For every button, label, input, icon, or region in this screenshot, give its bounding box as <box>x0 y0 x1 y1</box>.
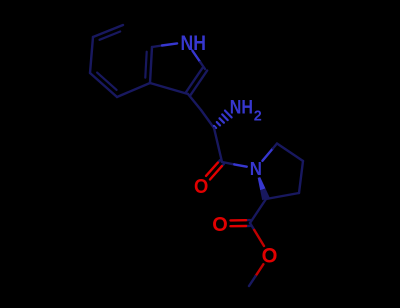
ester bond CE-O <box>250 223 254 230</box>
indole benzene bond C6-C5 <box>90 37 93 73</box>
pyrrolidine bond N-C5' <box>262 148 273 160</box>
side chain bond C3-CH2 <box>188 94 201 110</box>
indole bond C7a-N1 <box>152 46 162 48</box>
indole benzene double bond C6=C7 inner line <box>100 32 121 40</box>
indole benzene double bond C4=C5 inner line <box>97 73 117 90</box>
indole double bond C2=C3 <box>190 71 207 96</box>
svg-text:NH: NH <box>230 97 253 118</box>
pyrrolidine bond C3'-C2' <box>266 193 299 199</box>
indole benzene bond C4-C3a <box>117 83 150 97</box>
hashed wedge bond CA-NH2 <box>214 126 216 128</box>
svg-text:O: O <box>212 213 228 236</box>
indole benzene bond C7-C6 <box>93 25 123 37</box>
ester bond O-CH3 <box>256 264 264 276</box>
side chain bond CH2-CA <box>201 110 214 128</box>
indole fusion double bond C3a=C7a inner line <box>145 52 146 78</box>
indole bond N1-C2 <box>192 51 200 62</box>
bond CA-CO <box>214 128 222 162</box>
svg-text:O: O <box>194 175 208 198</box>
amide bond CO-N <box>222 162 234 164</box>
svg-text:N: N <box>250 158 262 179</box>
ester double bond CE=O <box>246 225 250 228</box>
indole fusion bond C3a-C7a <box>150 47 152 83</box>
indole benzene bond C5-C4 <box>90 73 117 97</box>
svg-text:NH: NH <box>181 31 206 55</box>
amide double bond CO=O <box>222 164 224 166</box>
pyrrolidine wedge bond N-C2' <box>258 177 266 190</box>
svg-text:2: 2 <box>254 107 262 124</box>
pyrrolidine bond C4'-C3' <box>299 161 303 193</box>
svg-text:O: O <box>262 245 278 268</box>
ester bond C2'-CE <box>250 199 266 223</box>
pyrrolidine bond C5'-C4' <box>277 144 303 162</box>
indole bond C3-C3a <box>150 83 188 94</box>
